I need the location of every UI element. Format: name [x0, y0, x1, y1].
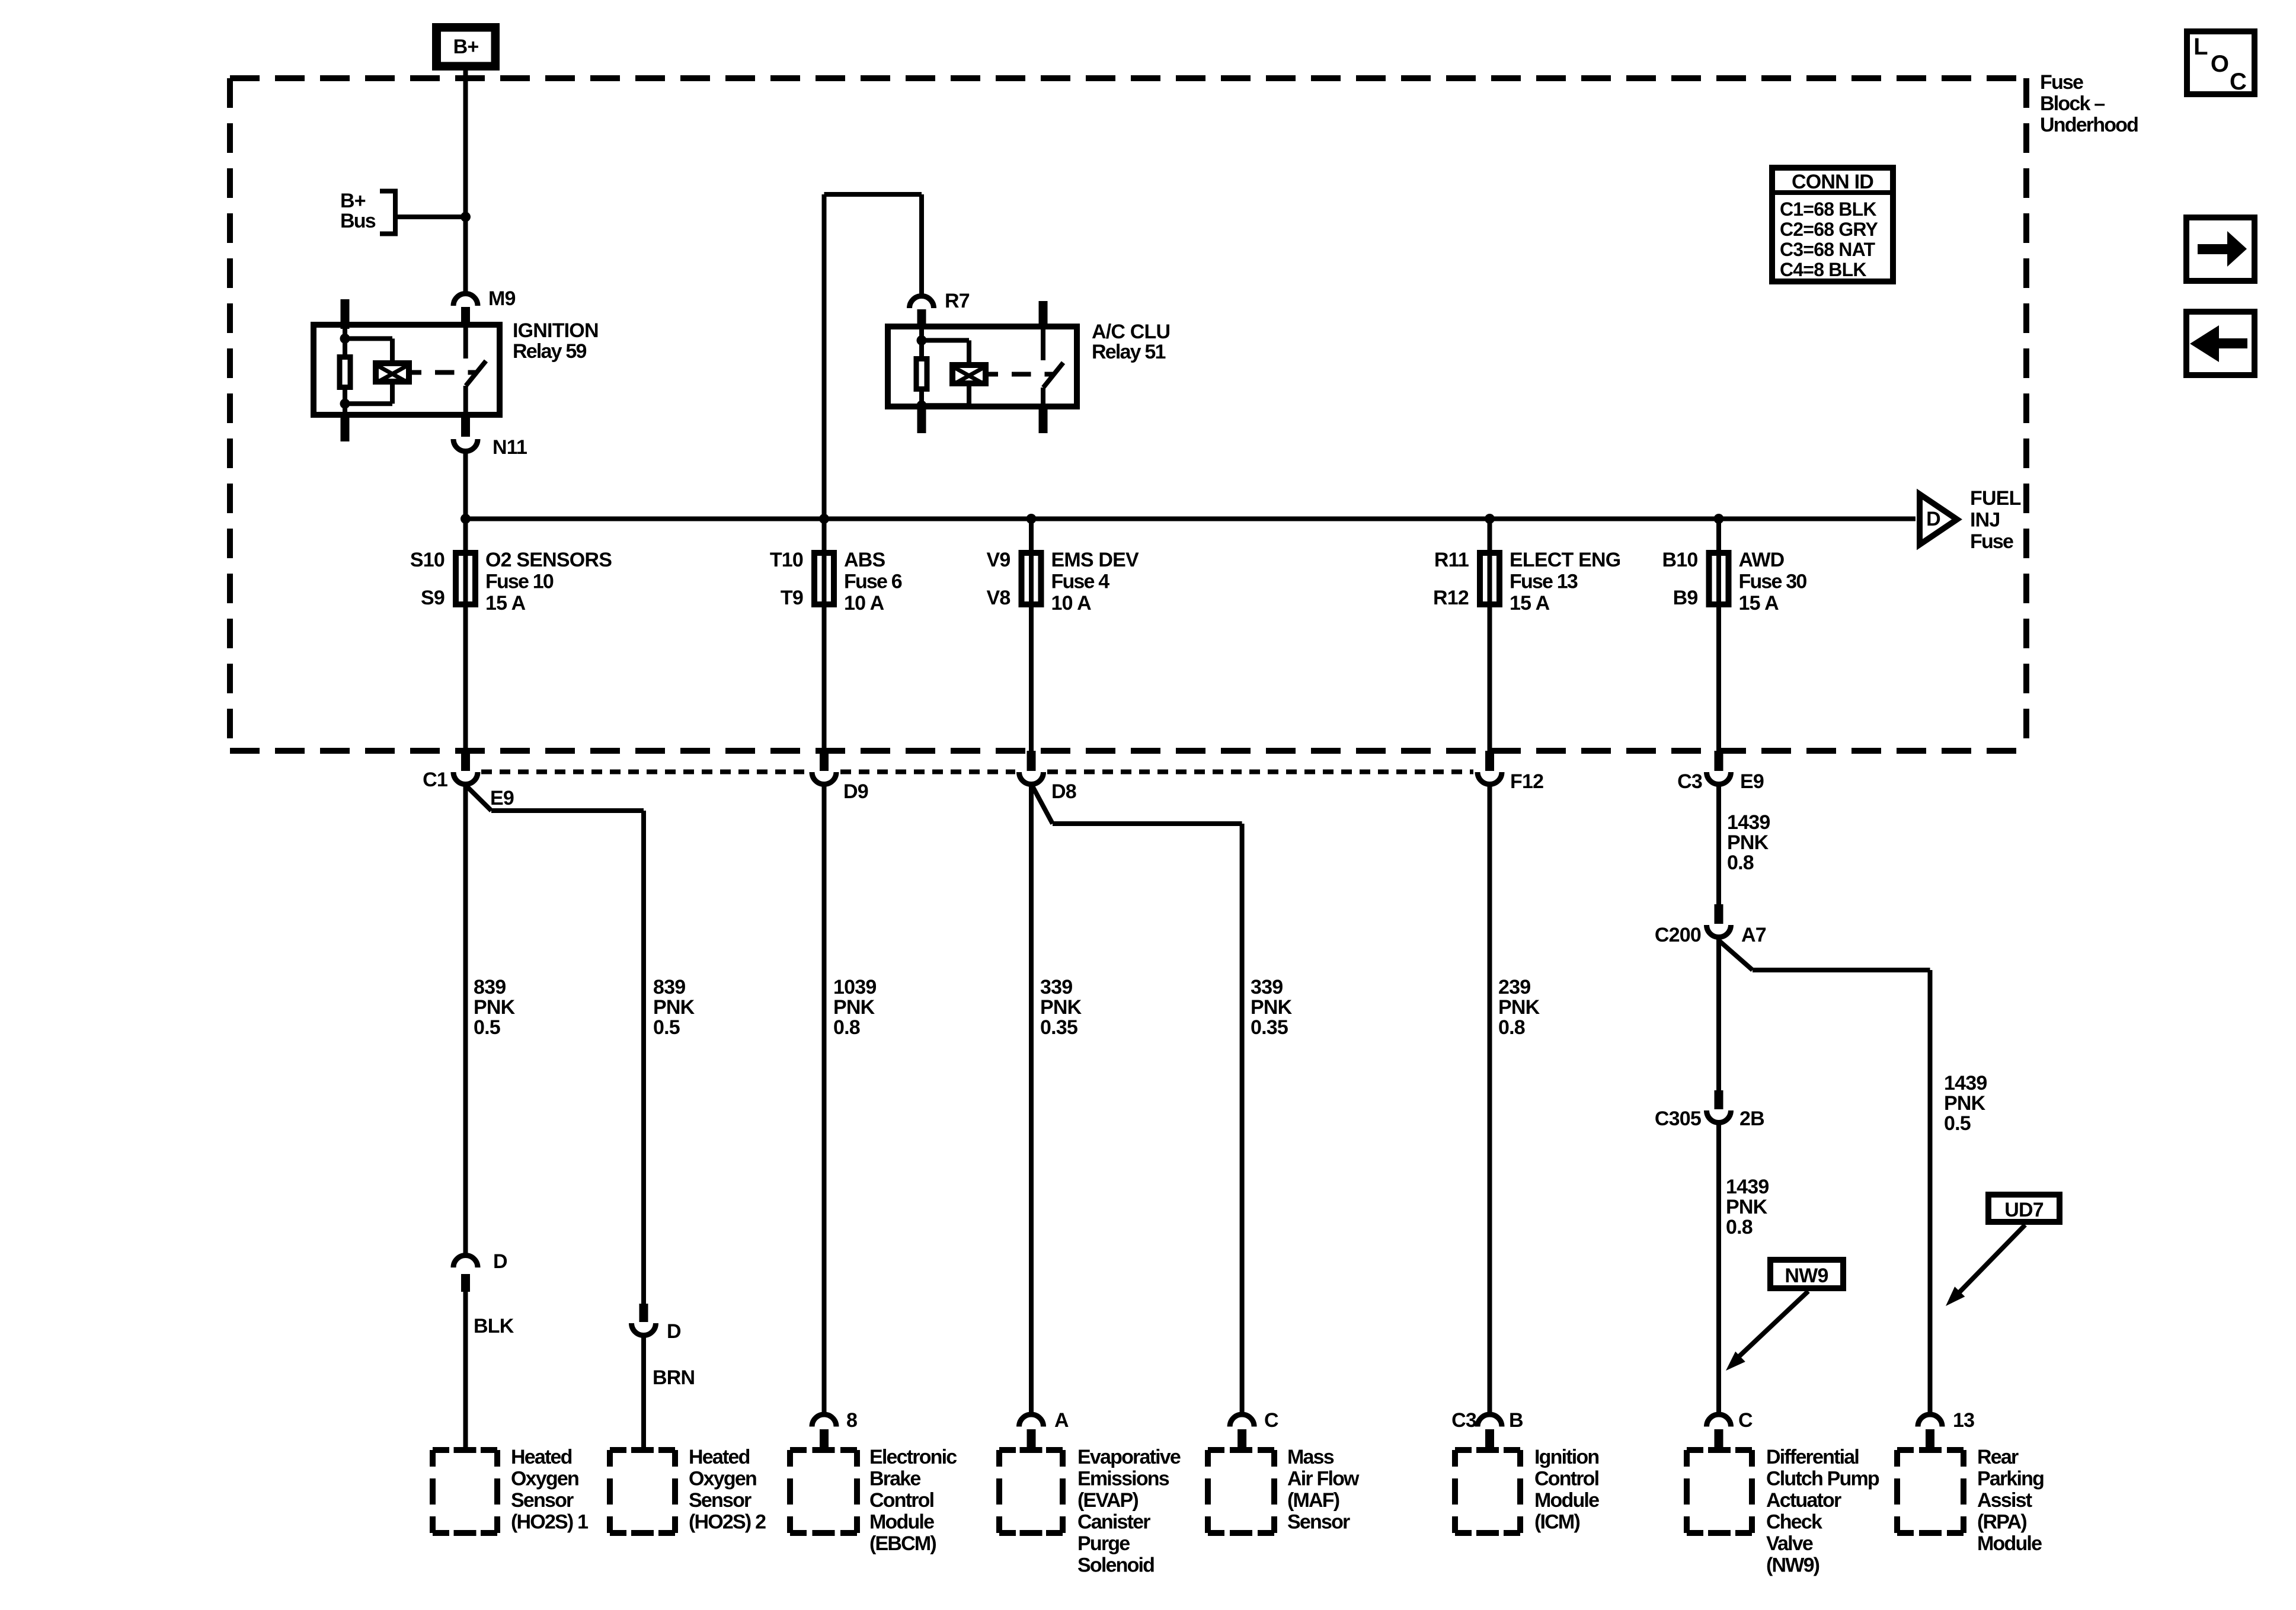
- svg-text:C2=68 GRY: C2=68 GRY: [1780, 219, 1878, 240]
- svg-text:Fuse 10: Fuse 10: [485, 571, 554, 593]
- svg-text:0.35: 0.35: [1040, 1016, 1077, 1039]
- svg-text:Control: Control: [869, 1489, 934, 1512]
- svg-text:(EBCM): (EBCM): [869, 1532, 936, 1555]
- svg-text:C1=68 BLK: C1=68 BLK: [1780, 199, 1876, 220]
- svg-text:339: 339: [1040, 976, 1072, 998]
- svg-text:UD7: UD7: [2004, 1199, 2044, 1221]
- svg-text:V8: V8: [987, 587, 1011, 609]
- svg-text:R12: R12: [1433, 587, 1469, 609]
- svg-text:NW9: NW9: [1785, 1265, 1828, 1287]
- svg-text:Air Flow: Air Flow: [1287, 1468, 1360, 1490]
- svg-text:Parking: Parking: [1977, 1468, 2044, 1490]
- svg-text:Fuse: Fuse: [2040, 71, 2083, 94]
- svg-text:M9: M9: [488, 287, 516, 310]
- svg-text:S9: S9: [421, 587, 445, 609]
- svg-text:Fuse 30: Fuse 30: [1739, 571, 1807, 593]
- svg-text:Oxygen: Oxygen: [689, 1468, 756, 1490]
- svg-text:EMS DEV: EMS DEV: [1051, 549, 1140, 571]
- svg-text:Heated: Heated: [511, 1446, 572, 1468]
- svg-text:BRN: BRN: [653, 1366, 695, 1389]
- svg-text:PNK: PNK: [1944, 1092, 1986, 1115]
- svg-text:10 A: 10 A: [1051, 592, 1092, 614]
- svg-text:C1: C1: [423, 769, 447, 791]
- svg-text:C3: C3: [1451, 1409, 1476, 1432]
- svg-text:Rear: Rear: [1977, 1446, 2019, 1468]
- svg-text:Control: Control: [1534, 1468, 1599, 1490]
- svg-text:Canister: Canister: [1077, 1511, 1150, 1534]
- svg-text:(NW9): (NW9): [1766, 1554, 1819, 1577]
- svg-text:Module: Module: [869, 1511, 934, 1534]
- svg-text:B+: B+: [453, 36, 479, 58]
- svg-text:(HO2S) 2: (HO2S) 2: [689, 1511, 766, 1534]
- svg-text:B+: B+: [340, 190, 366, 212]
- svg-text:13: 13: [1953, 1409, 1974, 1432]
- svg-text:V9: V9: [987, 549, 1011, 571]
- svg-text:IGNITION: IGNITION: [513, 319, 599, 342]
- svg-text:2B: 2B: [1739, 1108, 1764, 1130]
- svg-text:CONN ID: CONN ID: [1792, 171, 1873, 193]
- svg-text:Module: Module: [1977, 1532, 2042, 1555]
- svg-text:D9: D9: [843, 780, 868, 803]
- svg-text:C3: C3: [1677, 770, 1702, 793]
- svg-text:PNK: PNK: [1040, 996, 1082, 1019]
- svg-text:T9: T9: [781, 587, 803, 609]
- svg-text:0.8: 0.8: [1498, 1016, 1525, 1039]
- svg-text:D: D: [493, 1250, 507, 1273]
- svg-text:Assist: Assist: [1977, 1489, 2032, 1512]
- svg-text:Purge: Purge: [1077, 1532, 1130, 1555]
- svg-text:B10: B10: [1662, 549, 1698, 571]
- svg-text:AWD: AWD: [1739, 549, 1785, 571]
- svg-text:Fuse 4: Fuse 4: [1051, 571, 1110, 593]
- svg-text:PNK: PNK: [833, 996, 875, 1019]
- svg-text:Heated: Heated: [689, 1446, 750, 1468]
- svg-text:C4=8 BLK: C4=8 BLK: [1780, 259, 1866, 280]
- svg-text:BLK: BLK: [474, 1315, 514, 1337]
- svg-text:C3=68 NAT: C3=68 NAT: [1780, 239, 1876, 260]
- svg-text:O2 SENSORS: O2 SENSORS: [485, 549, 612, 571]
- svg-text:Relay 51: Relay 51: [1092, 341, 1165, 363]
- svg-text:T10: T10: [770, 549, 803, 571]
- svg-text:PNK: PNK: [1251, 996, 1293, 1019]
- svg-text:D8: D8: [1051, 780, 1076, 803]
- svg-text:E9: E9: [1740, 770, 1764, 793]
- svg-text:Block –: Block –: [2040, 92, 2105, 115]
- svg-text:(MAF): (MAF): [1287, 1489, 1339, 1512]
- svg-text:0.5: 0.5: [474, 1016, 500, 1039]
- svg-text:D: D: [1926, 508, 1940, 530]
- svg-text:A7: A7: [1741, 924, 1766, 946]
- svg-text:R7: R7: [945, 290, 970, 312]
- svg-text:Solenoid: Solenoid: [1077, 1554, 1154, 1577]
- svg-text:339: 339: [1251, 976, 1283, 998]
- svg-text:1439: 1439: [1726, 1176, 1769, 1198]
- svg-text:Electronic: Electronic: [869, 1446, 957, 1468]
- svg-text:839: 839: [653, 976, 685, 998]
- svg-text:Evaporative: Evaporative: [1077, 1446, 1181, 1468]
- svg-text:0.35: 0.35: [1251, 1016, 1288, 1039]
- svg-text:Fuse 6: Fuse 6: [844, 571, 902, 593]
- svg-text:0.8: 0.8: [833, 1016, 860, 1039]
- svg-text:(EVAP): (EVAP): [1077, 1489, 1138, 1512]
- svg-text:Fuse: Fuse: [1970, 530, 2013, 553]
- svg-text:A/C CLU: A/C CLU: [1092, 321, 1170, 343]
- svg-text:Bus: Bus: [340, 210, 376, 232]
- svg-text:C: C: [2230, 69, 2246, 95]
- svg-text:Fuse 13: Fuse 13: [1510, 571, 1578, 593]
- svg-text:Sensor: Sensor: [689, 1489, 752, 1512]
- svg-text:1439: 1439: [1727, 811, 1770, 834]
- svg-text:PNK: PNK: [1726, 1196, 1768, 1218]
- svg-text:A: A: [1054, 1409, 1069, 1432]
- svg-text:F12: F12: [1510, 770, 1543, 793]
- svg-text:R11: R11: [1434, 549, 1469, 571]
- svg-text:Check: Check: [1766, 1511, 1822, 1534]
- svg-text:839: 839: [474, 976, 506, 998]
- svg-text:1439: 1439: [1944, 1072, 1987, 1094]
- svg-text:(RPA): (RPA): [1977, 1511, 2026, 1534]
- svg-text:Mass: Mass: [1287, 1446, 1334, 1468]
- svg-text:B9: B9: [1673, 587, 1698, 609]
- svg-text:N11: N11: [493, 436, 527, 459]
- svg-text:239: 239: [1498, 976, 1530, 998]
- svg-text:C: C: [1738, 1409, 1753, 1432]
- svg-text:E9: E9: [490, 787, 514, 809]
- svg-text:Differential: Differential: [1766, 1446, 1859, 1468]
- svg-text:L: L: [2193, 34, 2208, 60]
- svg-text:S10: S10: [410, 549, 445, 571]
- svg-text:C305: C305: [1655, 1108, 1701, 1130]
- svg-text:Clutch Pump: Clutch Pump: [1766, 1468, 1879, 1490]
- svg-text:(ICM): (ICM): [1534, 1511, 1579, 1534]
- svg-text:Sensor: Sensor: [511, 1489, 574, 1512]
- svg-text:C: C: [1264, 1409, 1278, 1432]
- svg-text:PNK: PNK: [1498, 996, 1540, 1019]
- svg-text:8: 8: [846, 1409, 857, 1432]
- svg-text:Sensor: Sensor: [1287, 1511, 1350, 1534]
- svg-text:0.8: 0.8: [1727, 852, 1754, 874]
- svg-text:0.5: 0.5: [653, 1016, 680, 1039]
- svg-text:Underhood: Underhood: [2040, 114, 2138, 136]
- svg-text:Brake: Brake: [869, 1468, 920, 1490]
- svg-text:15 A: 15 A: [1510, 592, 1550, 614]
- svg-text:ABS: ABS: [844, 549, 885, 571]
- svg-text:15 A: 15 A: [1739, 592, 1779, 614]
- svg-text:Valve: Valve: [1766, 1532, 1813, 1555]
- svg-text:Module: Module: [1534, 1489, 1599, 1512]
- svg-text:Actuator: Actuator: [1766, 1489, 1841, 1512]
- svg-text:INJ: INJ: [1970, 509, 2000, 532]
- svg-text:PNK: PNK: [653, 996, 695, 1019]
- svg-text:Emissions: Emissions: [1077, 1468, 1169, 1490]
- svg-text:O: O: [2211, 51, 2228, 77]
- svg-text:10 A: 10 A: [844, 592, 884, 614]
- svg-text:15 A: 15 A: [485, 592, 526, 614]
- svg-text:PNK: PNK: [1727, 831, 1769, 854]
- svg-text:Oxygen: Oxygen: [511, 1468, 578, 1490]
- svg-text:0.8: 0.8: [1726, 1216, 1753, 1238]
- svg-text:Relay 59: Relay 59: [513, 340, 586, 363]
- svg-text:PNK: PNK: [474, 996, 516, 1019]
- svg-text:ELECT ENG: ELECT ENG: [1510, 549, 1620, 571]
- svg-text:B: B: [1509, 1409, 1523, 1432]
- svg-text:1039: 1039: [833, 976, 876, 998]
- svg-text:D: D: [667, 1320, 681, 1343]
- svg-text:Ignition: Ignition: [1534, 1446, 1598, 1468]
- svg-text:0.5: 0.5: [1944, 1112, 1971, 1135]
- svg-text:(HO2S) 1: (HO2S) 1: [511, 1511, 588, 1534]
- svg-text:FUEL: FUEL: [1970, 487, 2021, 510]
- svg-text:C200: C200: [1655, 924, 1701, 946]
